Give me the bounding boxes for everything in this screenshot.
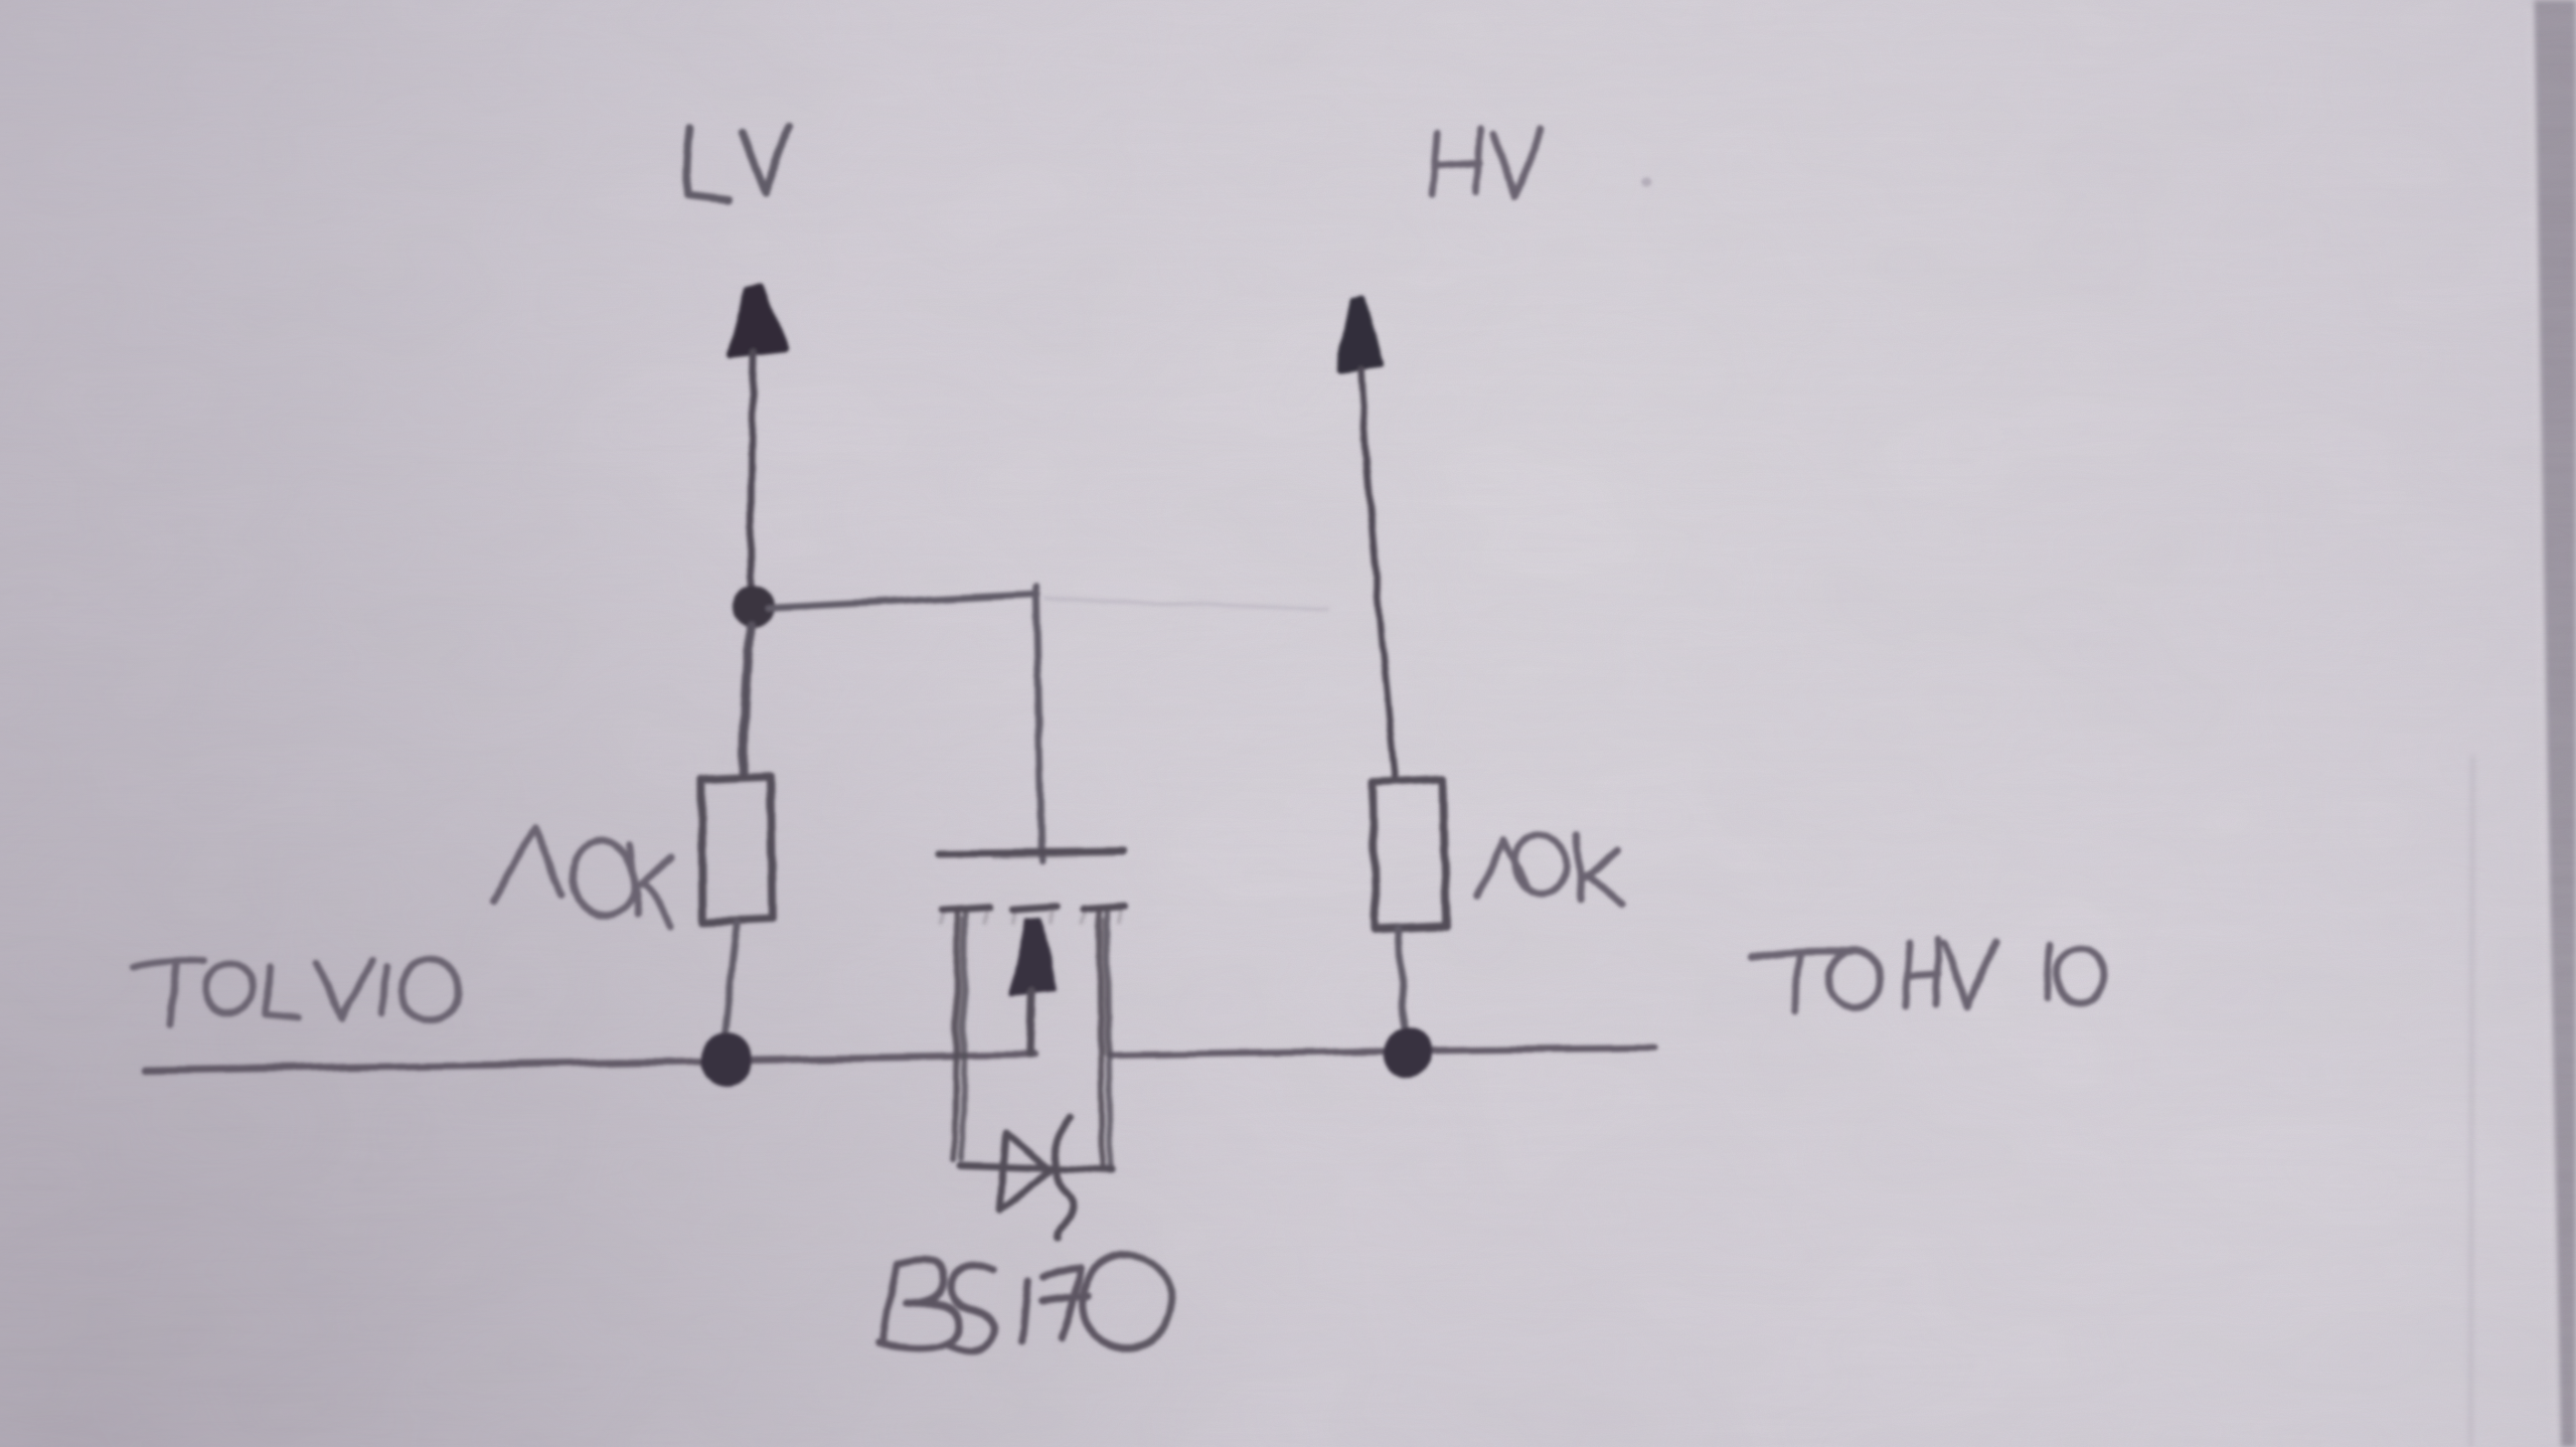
wire R1 to LV rail: [724, 923, 736, 1040]
transistor Q1 BS170: [940, 852, 1125, 1171]
wire HV rail: [1110, 1047, 1654, 1054]
value label BS170: [879, 1255, 1172, 1351]
wire node to gate corner: [767, 594, 1037, 608]
wire LV rail: [145, 1055, 1036, 1070]
value label 10k of R2: [1477, 830, 1622, 904]
net label HV: [1432, 128, 1541, 196]
LV supply arrow: [730, 287, 785, 596]
node junction HV rail: [1382, 1029, 1432, 1078]
wire gate lead vertical: [1036, 586, 1042, 861]
body diode of Q1: [961, 1117, 1112, 1239]
stray pencil ghost line: [1046, 598, 1327, 609]
wire R2 to HV rail: [1399, 928, 1404, 1032]
resistor R2 10k body: [1372, 780, 1446, 928]
net label TOHV10: [1751, 940, 2103, 1012]
resistor R1 10k body: [702, 776, 772, 922]
value label 10k of R1: [493, 829, 672, 925]
stray faint dot: [1643, 178, 1653, 188]
net label TOLVIO: [134, 953, 466, 1027]
HV supply arrow: [1340, 298, 1395, 777]
wire node to resistor R1: [744, 627, 750, 774]
node junction LV rail: [700, 1032, 753, 1085]
net label LV: [687, 127, 789, 200]
node junction at LV divider: [730, 585, 774, 629]
